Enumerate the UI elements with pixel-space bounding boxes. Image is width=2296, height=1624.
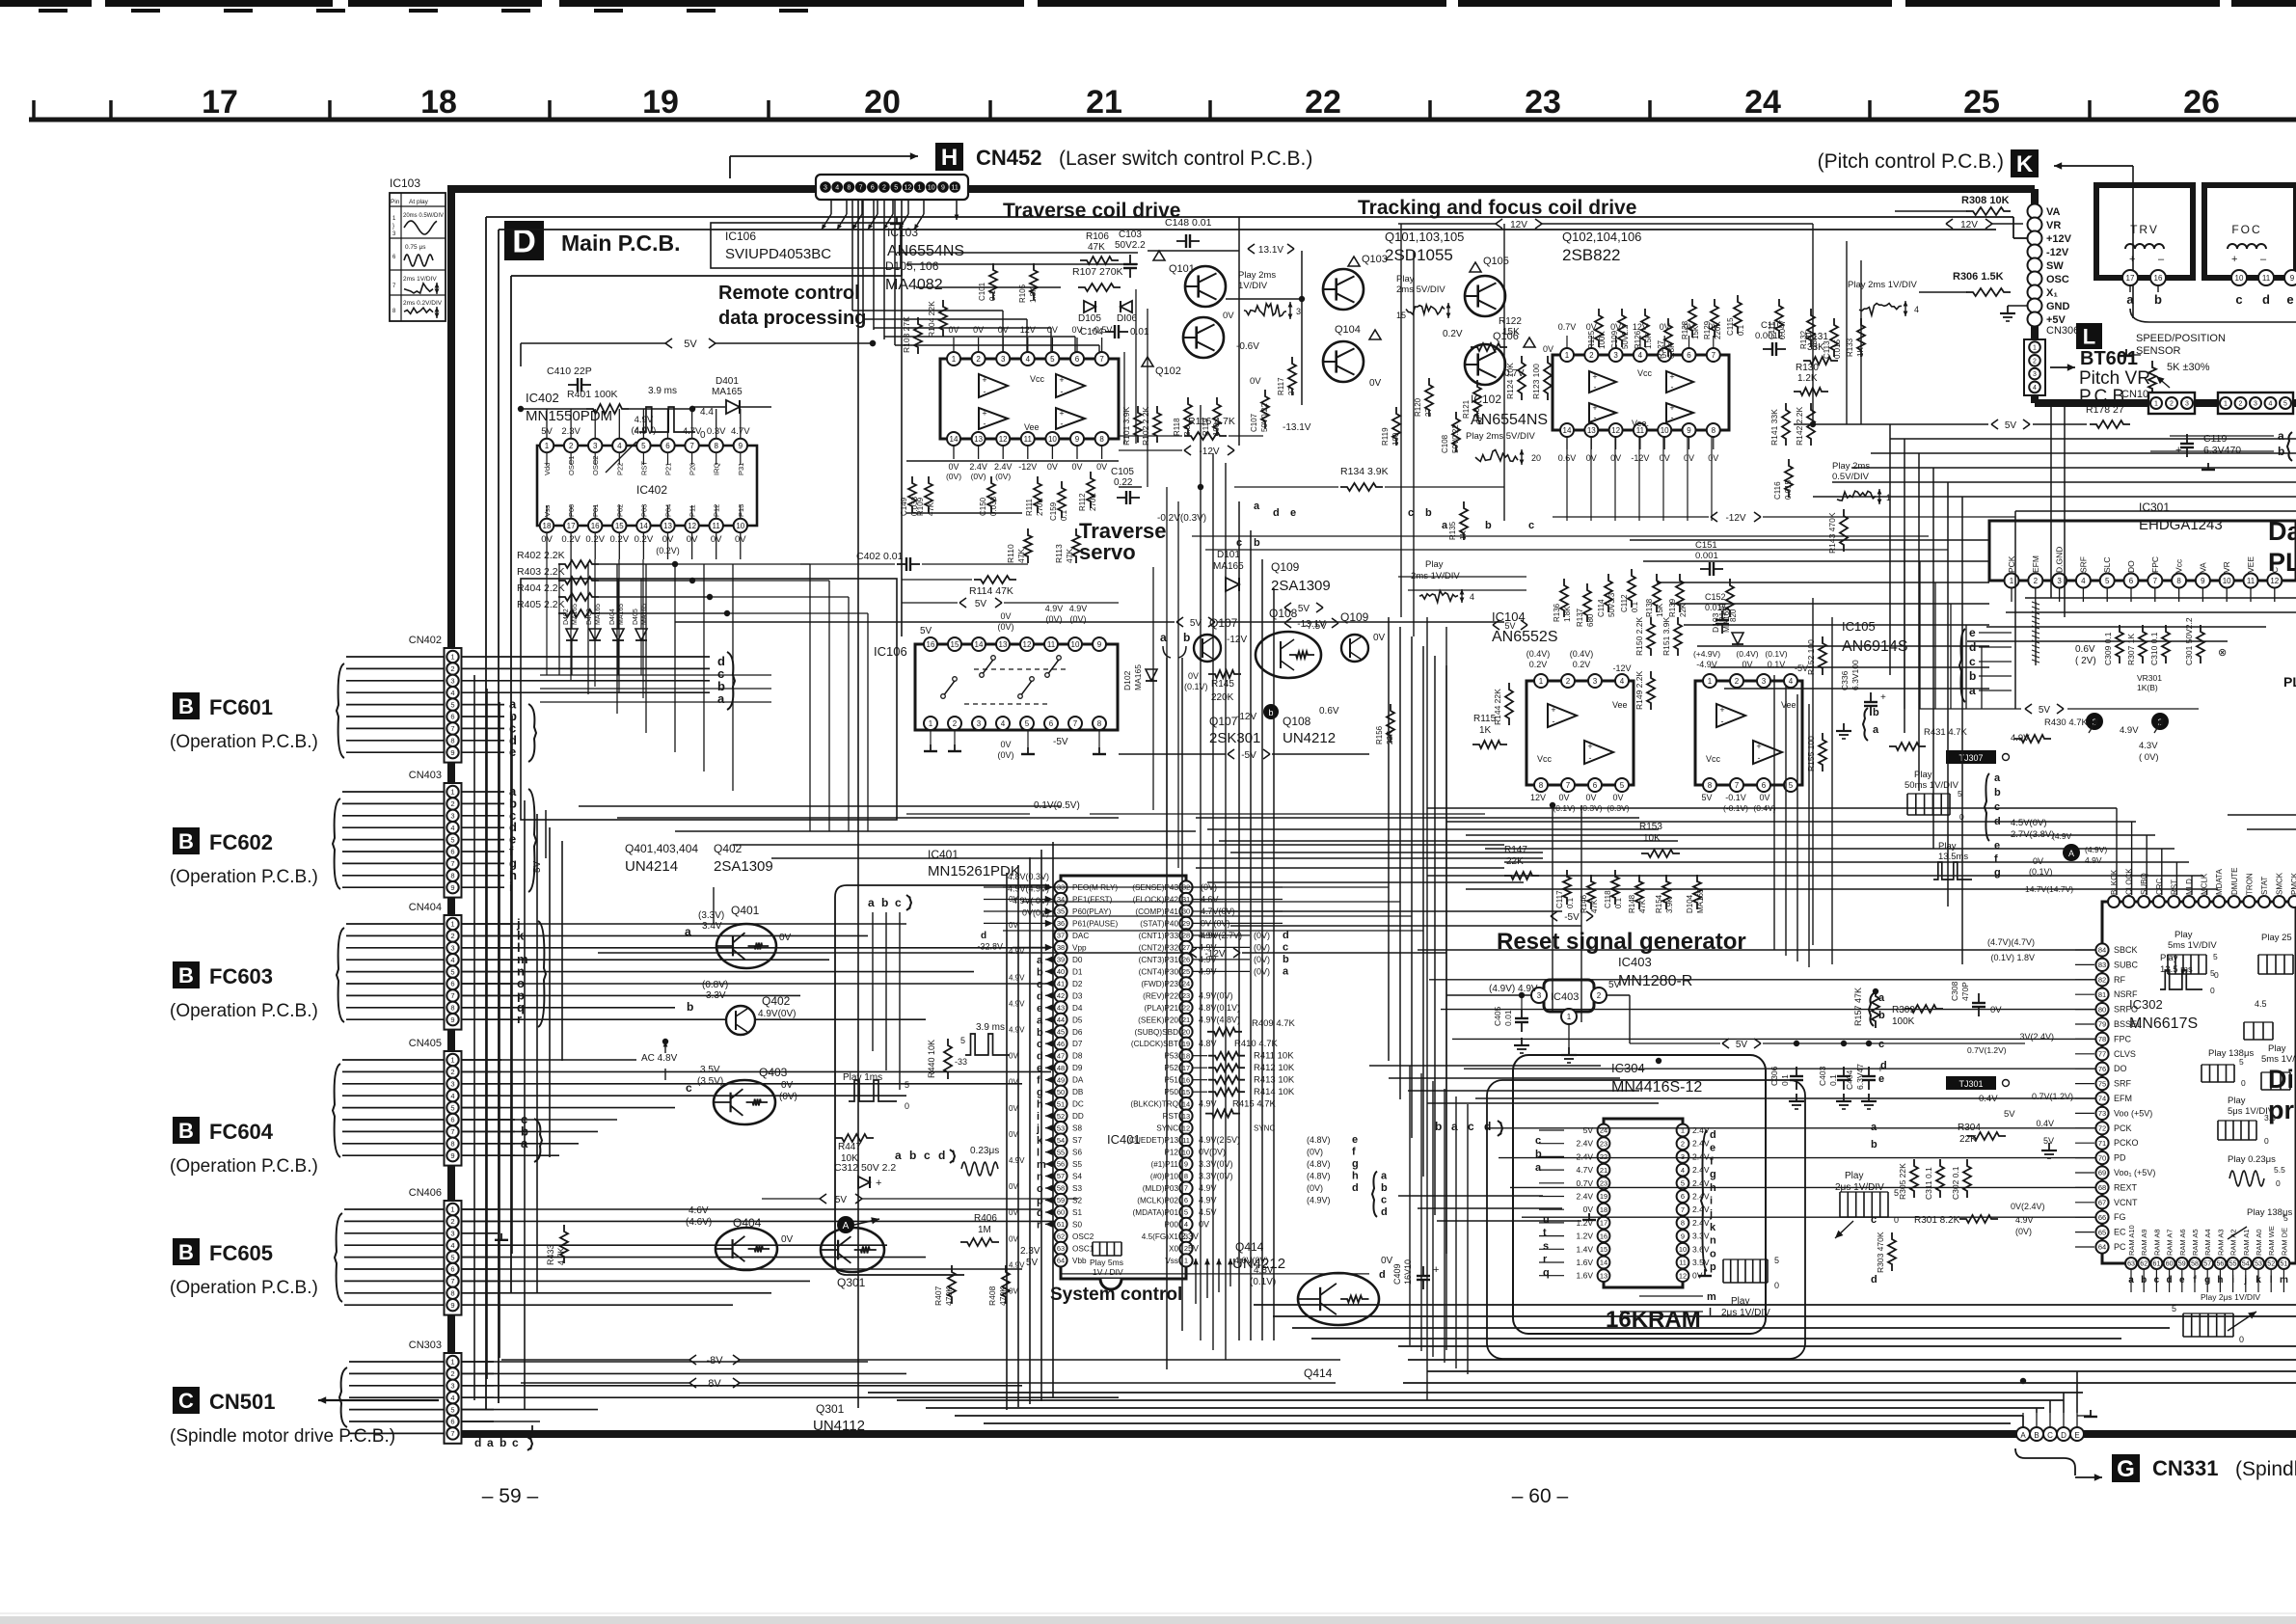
svg-text:Q414: Q414 xyxy=(1304,1367,1333,1380)
svg-text:2: 2 xyxy=(450,1369,454,1378)
svg-text:E: E xyxy=(2074,1431,2079,1440)
svg-text:2: 2 xyxy=(2170,401,2174,408)
svg-text:p: p xyxy=(1710,1261,1716,1273)
svg-text:0.015: 0.015 xyxy=(1784,479,1793,500)
svg-text:2.4V: 2.4V xyxy=(969,462,987,472)
svg-text:a: a xyxy=(685,925,691,938)
svg-text:0.1V: 0.1V xyxy=(1768,660,1786,669)
svg-text:220K: 220K xyxy=(1714,321,1722,339)
svg-text:1: 1 xyxy=(1567,1013,1572,1021)
svg-text:R401 100K: R401 100K xyxy=(567,389,618,400)
svg-text:RAM A5: RAM A5 xyxy=(2191,1229,2200,1256)
svg-text:5: 5 xyxy=(2283,401,2287,408)
svg-text:2.4V: 2.4V xyxy=(1577,1139,1594,1149)
svg-text:R440 10K: R440 10K xyxy=(927,1040,936,1078)
svg-text:0V: 0V xyxy=(1009,1052,1018,1061)
svg-text:0.2V: 0.2V xyxy=(1443,329,1463,339)
svg-text:0: 0 xyxy=(2214,970,2219,980)
svg-text:f: f xyxy=(1037,1075,1040,1087)
svg-text:12: 12 xyxy=(1023,640,1032,649)
svg-text:FC602: FC602 xyxy=(209,830,273,854)
svg-text:MA165: MA165 xyxy=(1721,607,1731,633)
svg-text:B: B xyxy=(178,694,194,718)
svg-text:71: 71 xyxy=(2098,1139,2106,1148)
svg-text:8: 8 xyxy=(450,1289,454,1298)
svg-text:D3: D3 xyxy=(1072,991,1083,1000)
svg-text:4.4: 4.4 xyxy=(700,407,714,418)
svg-text:47K: 47K xyxy=(927,501,935,516)
svg-text:5V: 5V xyxy=(684,338,697,350)
svg-text:7: 7 xyxy=(1735,781,1740,790)
svg-text:2.3V: 2.3V xyxy=(1180,1232,1199,1241)
svg-text:RAM A3: RAM A3 xyxy=(2216,1229,2225,1256)
svg-text:R306 1.5K: R306 1.5K xyxy=(1953,271,2004,283)
svg-text:4: 4 xyxy=(835,185,839,192)
svg-text:2.4V: 2.4V xyxy=(1692,1125,1710,1135)
svg-text:R148: R148 xyxy=(1628,894,1636,913)
svg-text:SYNC: SYNC xyxy=(1254,1124,1275,1133)
svg-text:0V: 0V xyxy=(1583,1204,1594,1214)
svg-text:(Spindle co: (Spindle co xyxy=(2235,1458,2296,1480)
svg-text:+: + xyxy=(982,409,986,419)
svg-text:D101: D101 xyxy=(1217,550,1240,560)
svg-text:D103: D103 xyxy=(1711,612,1720,633)
svg-text:22: 22 xyxy=(1600,1152,1607,1161)
svg-text:15K: 15K xyxy=(1691,325,1700,339)
svg-text:4: 4 xyxy=(1184,1220,1188,1229)
svg-text:-12V: -12V xyxy=(1725,513,1745,524)
svg-text:b: b xyxy=(1435,1120,1442,1133)
svg-text:50V3.3: 50V3.3 xyxy=(1607,592,1616,617)
svg-text:RAM A8: RAM A8 xyxy=(2152,1229,2161,1256)
svg-text:0V: 0V xyxy=(948,325,959,335)
svg-text:CN501: CN501 xyxy=(209,1390,275,1414)
svg-text:4.9V(0V): 4.9V(0V) xyxy=(1199,990,1233,1000)
svg-text:8: 8 xyxy=(1681,1219,1685,1228)
svg-text:81: 81 xyxy=(2098,990,2106,999)
svg-text:4.9V: 4.9V xyxy=(1009,973,1025,982)
svg-text:Reset signal generator: Reset signal generator xyxy=(1497,929,1746,955)
svg-text:7: 7 xyxy=(1073,719,1078,728)
svg-text:Remote control: Remote control xyxy=(718,283,860,304)
svg-text:d: d xyxy=(981,931,986,941)
svg-text:C404: C404 xyxy=(1845,1069,1854,1090)
svg-text:6: 6 xyxy=(2129,577,2134,585)
svg-text:b: b xyxy=(1878,1010,1885,1021)
svg-text:DA: DA xyxy=(1072,1076,1084,1085)
svg-text:4: 4 xyxy=(450,824,454,832)
svg-text:50V0.22: 50V0.22 xyxy=(1260,403,1269,432)
svg-text:FC601: FC601 xyxy=(209,695,273,719)
svg-text:10: 10 xyxy=(928,185,935,192)
svg-text:7: 7 xyxy=(450,991,454,1000)
svg-text:3: 3 xyxy=(1762,677,1767,686)
svg-text:R404 2.2K: R404 2.2K xyxy=(517,582,565,594)
svg-text:MA165: MA165 xyxy=(712,387,743,397)
svg-text:0V: 0V xyxy=(1223,311,1234,321)
svg-text:6.8K: 6.8K xyxy=(1667,342,1676,359)
svg-text:Vee: Vee xyxy=(1024,422,1040,432)
svg-text:System control: System control xyxy=(1050,1285,1182,1305)
svg-text:10: 10 xyxy=(1661,426,1669,435)
svg-text:51: 51 xyxy=(1057,1099,1065,1108)
svg-text:3: 3 xyxy=(450,812,454,821)
svg-text:(4.8V): (4.8V) xyxy=(1307,1159,1331,1169)
svg-text:R430 4.7K: R430 4.7K xyxy=(2044,717,2089,728)
svg-text:6: 6 xyxy=(450,1265,454,1274)
svg-text:1V/DIV: 1V/DIV xyxy=(1238,281,1268,291)
svg-text:C410 22P: C410 22P xyxy=(547,365,592,377)
svg-text:70: 70 xyxy=(2098,1153,2106,1162)
svg-text:(MLD)P03: (MLD)P03 xyxy=(1143,1184,1179,1193)
svg-text:0.2V: 0.2V xyxy=(1573,660,1591,669)
svg-text:R152 100: R152 100 xyxy=(1806,639,1816,675)
svg-text:VEE: VEE xyxy=(2246,556,2255,573)
svg-text:4.9V: 4.9V xyxy=(1069,604,1088,613)
svg-text:R407: R407 xyxy=(933,1286,943,1306)
svg-text:5: 5 xyxy=(450,700,454,709)
svg-text:(Operation P.C.B.): (Operation P.C.B.) xyxy=(170,1001,318,1021)
svg-text:S0: S0 xyxy=(1072,1220,1082,1229)
svg-text:4.8V: 4.8V xyxy=(1199,1039,1217,1048)
svg-text:MA165: MA165 xyxy=(572,604,579,625)
svg-text:(FWD)P23: (FWD)P23 xyxy=(1141,980,1178,988)
svg-text:R111: R111 xyxy=(1025,499,1034,516)
svg-text:a: a xyxy=(1037,955,1043,966)
svg-text:67: 67 xyxy=(2098,1199,2106,1207)
svg-text:(Operation P.C.B.): (Operation P.C.B.) xyxy=(170,1278,318,1298)
svg-text:5: 5 xyxy=(1050,355,1055,364)
svg-text:EFM: EFM xyxy=(2031,555,2040,573)
svg-text:3: 3 xyxy=(2033,371,2037,378)
svg-text:1V / DIV: 1V / DIV xyxy=(1093,1267,1123,1277)
svg-text:3.4V: 3.4V xyxy=(702,921,722,932)
svg-text:0V: 0V xyxy=(973,325,984,335)
svg-text:X0: X0 xyxy=(1169,1244,1178,1253)
svg-text:2: 2 xyxy=(1681,1139,1685,1148)
svg-text:4.3V: 4.3V xyxy=(2139,741,2158,751)
svg-text:-4.9V: -4.9V xyxy=(1696,660,1717,669)
svg-text:16: 16 xyxy=(591,522,600,530)
svg-text:(#0)P10: (#0)P10 xyxy=(1150,1173,1179,1181)
svg-text:0V: 0V xyxy=(1543,344,1553,354)
svg-text:13: 13 xyxy=(1587,426,1596,435)
svg-text:1: 1 xyxy=(2154,401,2158,408)
svg-text:b: b xyxy=(881,896,888,909)
svg-text:K: K xyxy=(2016,151,2034,177)
svg-text:9: 9 xyxy=(450,1151,454,1160)
svg-text:Play 25 ms: Play 25 ms xyxy=(2261,933,2296,943)
svg-text:(MCLK)P02: (MCLK)P02 xyxy=(1137,1197,1178,1205)
svg-text:0.1: 0.1 xyxy=(1566,897,1575,908)
svg-text:C104: C104 xyxy=(1080,327,1103,338)
svg-text:c: c xyxy=(1535,1135,1541,1147)
svg-text:0V: 0V xyxy=(779,933,792,943)
svg-text:4.9V: 4.9V xyxy=(1045,604,1064,613)
svg-text:45: 45 xyxy=(1057,1028,1065,1037)
svg-text:(0V): (0V) xyxy=(1307,1148,1323,1157)
svg-text:(0.8V): (0.8V) xyxy=(702,980,728,990)
svg-text:R113: R113 xyxy=(1054,544,1064,563)
svg-text:1: 1 xyxy=(2010,577,2014,585)
svg-text:MN1550PDM: MN1550PDM xyxy=(526,408,612,424)
svg-text:n: n xyxy=(1710,1235,1716,1247)
svg-text:R410 4.7K: R410 4.7K xyxy=(1234,1039,1279,1049)
svg-text:6.3V100: 6.3V100 xyxy=(1850,660,1860,690)
svg-text:22K: 22K xyxy=(1386,730,1394,744)
svg-text:0: 0 xyxy=(2239,1335,2244,1344)
svg-text:2: 2 xyxy=(2033,358,2037,365)
svg-text:B: B xyxy=(2034,1431,2039,1440)
svg-text:C101: C101 xyxy=(978,282,986,301)
svg-text:4.9V: 4.9V xyxy=(1009,1156,1025,1165)
svg-text:R107 270K: R107 270K xyxy=(1072,266,1123,278)
svg-text:-12V: -12V xyxy=(1227,635,1247,645)
svg-text:15: 15 xyxy=(1600,1245,1607,1254)
svg-text:7: 7 xyxy=(1712,351,1716,360)
svg-text:c: c xyxy=(1408,507,1414,519)
svg-text:56: 56 xyxy=(2217,1261,2225,1268)
svg-text:2: 2 xyxy=(450,1217,454,1226)
svg-text:IC401: IC401 xyxy=(928,848,959,861)
svg-text:37: 37 xyxy=(1057,932,1065,940)
svg-text:+: + xyxy=(1719,705,1724,715)
svg-text:13: 13 xyxy=(999,640,1008,649)
svg-text:1: 1 xyxy=(1539,677,1544,686)
svg-text:0V: 0V xyxy=(781,1234,794,1245)
svg-text:47K: 47K xyxy=(1016,549,1026,563)
svg-text:+: + xyxy=(1880,692,1886,703)
svg-text:3: 3 xyxy=(450,677,454,686)
svg-text:5V: 5V xyxy=(1701,793,1712,802)
svg-text:MN1280-R: MN1280-R xyxy=(1618,973,1692,989)
svg-text:3: 3 xyxy=(2185,401,2189,408)
svg-text:1: 1 xyxy=(545,442,550,450)
svg-text:⊗: ⊗ xyxy=(2218,647,2227,659)
svg-text:5: 5 xyxy=(1184,1208,1188,1217)
svg-text:e: e xyxy=(1290,507,1296,519)
svg-text:-: - xyxy=(1721,717,1724,726)
svg-text:63: 63 xyxy=(2127,1261,2135,1268)
svg-text:RAM A9: RAM A9 xyxy=(2140,1229,2148,1256)
svg-text:S2: S2 xyxy=(1072,1197,1082,1205)
svg-text:7: 7 xyxy=(1566,781,1571,790)
svg-text:D104: D104 xyxy=(1686,894,1694,913)
svg-text:0.015: 0.015 xyxy=(1833,338,1842,359)
svg-text:65: 65 xyxy=(2098,1228,2106,1236)
svg-text:22: 22 xyxy=(1182,1004,1190,1013)
svg-text:0.1: 0.1 xyxy=(1614,897,1623,908)
svg-text:SBCK: SBCK xyxy=(2114,945,2138,955)
svg-text:R308 10K: R308 10K xyxy=(1961,195,2010,206)
svg-text:Vcc: Vcc xyxy=(1706,754,1721,764)
svg-text:CN402: CN402 xyxy=(409,635,442,646)
svg-text:C114: C114 xyxy=(1597,599,1606,617)
svg-text:51: 51 xyxy=(2281,1261,2288,1268)
svg-text:Play 5ms: Play 5ms xyxy=(1090,1258,1123,1267)
svg-text:0V: 0V xyxy=(1009,1234,1018,1243)
svg-text:5: 5 xyxy=(2210,968,2215,978)
svg-text:0: 0 xyxy=(2210,986,2215,995)
svg-text:1: 1 xyxy=(450,788,454,797)
svg-text:D.GND: D.GND xyxy=(2055,547,2065,573)
svg-text:0: 0 xyxy=(2241,1078,2246,1088)
svg-text:b: b xyxy=(500,1436,506,1449)
svg-text:0.0012: 0.0012 xyxy=(1755,331,1783,341)
svg-text:R431 4.7K: R431 4.7K xyxy=(1924,727,1968,738)
svg-text:d: d xyxy=(1969,640,1976,654)
svg-text:83: 83 xyxy=(2098,961,2106,969)
svg-text:–: – xyxy=(2158,254,2165,265)
svg-text:CLVS: CLVS xyxy=(2114,1049,2136,1059)
svg-text:0V: 0V xyxy=(2033,856,2043,866)
svg-text:5V: 5V xyxy=(1736,1040,1748,1050)
svg-text:270K: 270K xyxy=(1036,498,1044,516)
svg-text:PCKO: PCKO xyxy=(2114,1138,2139,1148)
svg-text:EC: EC xyxy=(2114,1228,2126,1237)
svg-text:1K(B): 1K(B) xyxy=(2137,683,2158,692)
svg-text:RAM WE: RAM WE xyxy=(2267,1226,2276,1256)
svg-text:4: 4 xyxy=(1638,351,1643,360)
svg-text:47K: 47K xyxy=(1638,899,1647,913)
svg-text:34: 34 xyxy=(1057,895,1065,904)
svg-text:3: 3 xyxy=(450,1230,454,1238)
svg-text:12V: 12V xyxy=(1960,220,1978,230)
svg-text:0.7V: 0.7V xyxy=(1577,1178,1594,1188)
svg-text:4: 4 xyxy=(450,1241,454,1250)
svg-text:MA165: MA165 xyxy=(595,604,602,625)
svg-text:(4.8V): (4.8V) xyxy=(1307,1135,1331,1145)
svg-text:0.1: 0.1 xyxy=(1828,1074,1838,1086)
svg-text:MA165: MA165 xyxy=(1133,664,1143,690)
svg-text:}: } xyxy=(392,224,394,230)
svg-text:FPC: FPC xyxy=(2114,1034,2132,1043)
svg-text:6: 6 xyxy=(450,980,454,988)
svg-text:Q102: Q102 xyxy=(1155,365,1181,377)
svg-text:-: - xyxy=(984,420,986,429)
svg-text:Play 138μs: Play 138μs xyxy=(2208,1048,2254,1059)
svg-text:63: 63 xyxy=(1057,1244,1065,1253)
svg-text:+: + xyxy=(2231,254,2237,265)
svg-text:t: t xyxy=(1543,1228,1547,1239)
svg-text:(0.1V) 1.8V: (0.1V) 1.8V xyxy=(1990,953,2035,962)
svg-text:47K: 47K xyxy=(1590,899,1599,913)
svg-text:Q103: Q103 xyxy=(1362,254,1388,265)
svg-text:60: 60 xyxy=(2166,1261,2174,1268)
svg-text:8: 8 xyxy=(1099,435,1104,444)
svg-text:10: 10 xyxy=(1048,435,1057,444)
svg-text:470P: 470P xyxy=(1960,982,1970,1001)
svg-text:TRON: TRON xyxy=(2245,873,2254,895)
svg-text:(0.4V): (0.4V) xyxy=(1526,649,1551,659)
svg-text:6: 6 xyxy=(871,185,875,192)
svg-text:(4.9V) 4.9V: (4.9V) 4.9V xyxy=(1489,984,1538,994)
svg-text:-: - xyxy=(1553,717,1555,726)
svg-text:P61(PAUSE): P61(PAUSE) xyxy=(1072,919,1118,928)
svg-text:12: 12 xyxy=(1611,426,1620,435)
svg-text:54: 54 xyxy=(1057,1136,1065,1145)
svg-text:AC 4.8V: AC 4.8V xyxy=(641,1053,678,1064)
svg-text:(CNT1)P33: (CNT1)P33 xyxy=(1139,932,1179,940)
svg-text:72: 72 xyxy=(2098,1124,2106,1133)
svg-text:CN403: CN403 xyxy=(409,770,442,781)
svg-text:h: h xyxy=(1352,1171,1359,1182)
svg-text:(0V): (0V) xyxy=(946,472,961,481)
svg-text:25: 25 xyxy=(1963,84,2000,121)
svg-text:18: 18 xyxy=(420,84,457,121)
svg-text:5: 5 xyxy=(2239,1057,2244,1067)
svg-text:m: m xyxy=(1707,1291,1716,1303)
svg-text:61: 61 xyxy=(2153,1261,2161,1268)
svg-text:FG: FG xyxy=(2114,1212,2126,1222)
svg-text:C312 50V 2.2: C312 50V 2.2 xyxy=(834,1162,896,1174)
svg-text:1.4V: 1.4V xyxy=(1577,1244,1594,1254)
svg-text:R118: R118 xyxy=(1173,418,1181,436)
svg-text:C110: C110 xyxy=(1761,320,1782,331)
svg-text:(4.6V): (4.6V) xyxy=(686,1217,712,1228)
svg-text:7: 7 xyxy=(1099,355,1104,364)
svg-text:R112: R112 xyxy=(1078,493,1087,511)
svg-text:13.1V: 13.1V xyxy=(1258,245,1283,256)
svg-text:0.6V: 0.6V xyxy=(2075,644,2095,655)
svg-text:IC403: IC403 xyxy=(1551,991,1579,1003)
svg-text:28: 28 xyxy=(1182,932,1190,940)
svg-text:4.5V(0V): 4.5V(0V) xyxy=(2011,818,2047,828)
svg-text:21: 21 xyxy=(1086,84,1122,121)
svg-text:2ms 1V/DIV: 2ms 1V/DIV xyxy=(403,276,437,283)
svg-text:59: 59 xyxy=(1057,1196,1065,1204)
svg-text:4.9V(2.5V): 4.9V(2.5V) xyxy=(1199,1135,1240,1145)
svg-text:20: 20 xyxy=(1531,453,1541,463)
svg-text:4.9V: 4.9V xyxy=(1199,1099,1217,1109)
svg-text:5V: 5V xyxy=(920,626,932,636)
svg-text:B: B xyxy=(178,1240,194,1264)
svg-text:11: 11 xyxy=(2247,577,2255,585)
svg-text:0.1: 0.1 xyxy=(1060,509,1068,521)
svg-text:0.5V/DIV: 0.5V/DIV xyxy=(1832,472,1870,482)
svg-text:(0V): (0V) xyxy=(997,622,1013,632)
svg-text:Q108: Q108 xyxy=(1283,715,1311,728)
svg-text:41: 41 xyxy=(1057,980,1065,988)
svg-text:8: 8 xyxy=(847,185,851,192)
svg-text:2: 2 xyxy=(2239,401,2243,408)
svg-text:R406: R406 xyxy=(974,1213,997,1224)
svg-text:RAM DE: RAM DE xyxy=(2280,1228,2288,1256)
svg-text:6: 6 xyxy=(1681,1192,1685,1201)
svg-text:d: d xyxy=(1283,930,1289,941)
svg-text:0.1: 0.1 xyxy=(1737,324,1745,336)
svg-text:d: d xyxy=(1352,1182,1359,1194)
svg-text:5V: 5V xyxy=(975,599,987,609)
svg-text:5: 5 xyxy=(641,442,646,450)
svg-text:MA165: MA165 xyxy=(1696,888,1705,913)
svg-text:SLC: SLC xyxy=(2102,556,2112,573)
svg-text:8: 8 xyxy=(714,442,718,450)
svg-text:+: + xyxy=(1551,705,1555,715)
svg-text:(FLOCK)P42: (FLOCK)P42 xyxy=(1133,896,1179,905)
svg-text:C152: C152 xyxy=(1705,592,1726,602)
svg-text:Traverse coil drive: Traverse coil drive xyxy=(1003,200,1180,222)
svg-text:7: 7 xyxy=(450,859,454,868)
svg-text:R178 27: R178 27 xyxy=(2086,404,2124,416)
svg-text:C118: C118 xyxy=(1604,890,1612,908)
svg-text:4: 4 xyxy=(1914,305,1919,314)
svg-text:Play: Play xyxy=(1914,770,1932,780)
svg-text:68: 68 xyxy=(2098,1183,2106,1192)
svg-text:3.3V: 3.3V xyxy=(706,990,726,1001)
svg-text:f: f xyxy=(1352,1147,1356,1158)
svg-text:R151 3.9K: R151 3.9K xyxy=(1661,617,1671,656)
